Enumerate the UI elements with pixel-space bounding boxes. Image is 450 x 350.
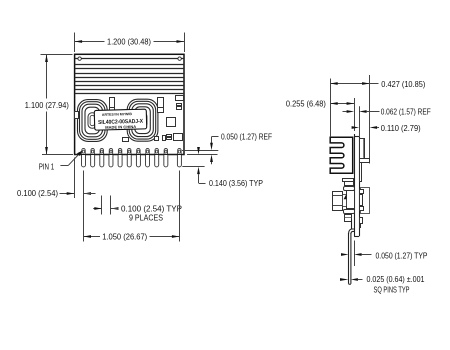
- svg-text:0.140 (3.56) TYP: 0.140 (3.56) TYP: [209, 178, 263, 188]
- module body outline (front view): [75, 54, 184, 154]
- svg-text:PIN 1: PIN 1: [39, 161, 55, 171]
- pins row (front view): [82, 148, 182, 167]
- svg-text:1.050 (26.67): 1.050 (26.67): [102, 232, 147, 242]
- black triangle marker: [344, 194, 347, 199]
- pin side view with offset bend: [349, 220, 355, 285]
- dim 1.050 extension line pin 11: [179, 171, 181, 242]
- svg-text:0.427 (10.85): 0.427 (10.85): [381, 79, 425, 89]
- left cluster bar 4: [344, 210, 355, 214]
- svg-text:0.100 (2.54): 0.100 (2.54): [17, 188, 58, 198]
- pin tip extension line L3: [182, 166, 204, 168]
- PIN 1 label and leader: [39, 151, 83, 172]
- svg-text:0.062 (1.57) REF: 0.062 (1.57) REF: [381, 106, 431, 116]
- capacitor C1 between toroids: [110, 98, 115, 112]
- component small rect pair: [177, 104, 182, 110]
- dim 1.050 line with arrows: [84, 235, 180, 238]
- capacitor C2 right of toroid L2: [158, 98, 164, 113]
- svg-text:1.100 (27.94): 1.100 (27.94): [25, 100, 69, 110]
- component small left-edge rect: [75, 112, 79, 119]
- component bottom rect near toroid: [155, 137, 159, 141]
- heatsink rivet left: [78, 57, 81, 60]
- PCB face extension below for 0.050 dim: [354, 241, 356, 267]
- svg-text:0.255 (6.48): 0.255 (6.48): [286, 98, 326, 108]
- svg-text:MADE IN CHINA: MADE IN CHINA: [105, 125, 136, 130]
- toroid inductor L1 (left): [78, 100, 108, 142]
- dim 1.100 line with arrows: [45, 54, 48, 154]
- IC U1 square: [167, 118, 176, 127]
- dim 0.100 TYP extension lines: [102, 196, 111, 215]
- dim 0.110 arrows and leader: [352, 126, 379, 129]
- svg-text:0.050 (1.27) TYP: 0.050 (1.27) TYP: [376, 250, 428, 260]
- svg-text:0.110 (2.79): 0.110 (2.79): [381, 123, 421, 133]
- dim 0.062 arrows and leader: [343, 110, 380, 113]
- svg-text:0.050 (1.27) REF: 0.050 (1.27) REF: [221, 132, 272, 142]
- dim 0.050 TYP arrows and leader: [341, 253, 372, 256]
- pin shoulder extension line L1: [182, 150, 218, 152]
- svg-text:1.200 (30.48): 1.200 (30.48): [107, 37, 151, 47]
- left cluster main block: [347, 191, 355, 209]
- svg-text:ARTESYN MYWIB: ARTESYN MYWIB: [102, 112, 133, 117]
- seating plane extension line L2: [187, 154, 218, 156]
- dim 1.200 extension lines: [75, 33, 185, 53]
- component base bar right of PCB: [360, 159, 370, 163]
- component bottom-center rect: [123, 138, 129, 142]
- dim 0.050 REF arrows and leader: [210, 137, 218, 165]
- dim 0.100 left arrows: [60, 192, 96, 195]
- component small bits below box: [360, 218, 363, 228]
- heatsink profile (side view): [330, 137, 353, 173]
- svg-text:SQ PINS TYP: SQ PINS TYP: [374, 284, 410, 294]
- module bottom edge (seating plane): [74, 154, 185, 156]
- components inside box on PCB right face: [360, 190, 364, 211]
- heatsink fin lines (front view): [75, 59, 184, 94]
- component tall rect right of PCB: [360, 139, 365, 159]
- PCB right face extension line above: [359, 106, 361, 137]
- heatsink fin tip extension line: [330, 79, 332, 138]
- left cluster bottom rect: [344, 215, 351, 222]
- mounting bolt head: [332, 192, 346, 211]
- toroid inductor L2 (right): [127, 99, 158, 141]
- dim text 0.025 (0.64) ±.001 SQ PINS TYP: [367, 274, 425, 295]
- component bottom narrow rect: [163, 136, 166, 141]
- dim 0.100 TYP arrows: [93, 207, 118, 210]
- heatsink rivet right: [178, 57, 181, 60]
- left cluster bar 1: [343, 179, 354, 182]
- component top-right rect: [176, 96, 184, 101]
- rightmost extension line: [369, 75, 371, 164]
- dim 1.200 line with arrows: [75, 40, 184, 43]
- dim 0.140 TYP arrows and leader: [197, 147, 205, 184]
- svg-text:0.025 (0.64) ±.001: 0.025 (0.64) ±.001: [367, 274, 425, 284]
- left cluster rounded bar 3: [344, 187, 355, 191]
- PCB left face extension line above: [354, 98, 356, 131]
- dim 0.025 arrows and leader: [340, 278, 363, 281]
- component box outline right of PCB: [361, 188, 370, 214]
- component bottom rect pair: [167, 135, 172, 140]
- dim 0.100 left extension lines: [75, 158, 84, 242]
- dim text 0.100 (2.54) TYP 9 PLACES: [121, 204, 182, 223]
- dim 0.255 line with arrows: [330, 102, 354, 105]
- left cluster rect 2: [345, 182, 354, 186]
- svg-text:9 PLACES: 9 PLACES: [129, 213, 163, 223]
- label plate with part number: [94, 109, 146, 130]
- component narrow rect right of PCB: [360, 163, 362, 182]
- dim 1.100 extension lines: [41, 55, 74, 155]
- dim 0.427 line with arrows: [330, 82, 378, 85]
- PCB side profile: [354, 134, 359, 237]
- component bottom-right rect: [174, 134, 183, 141]
